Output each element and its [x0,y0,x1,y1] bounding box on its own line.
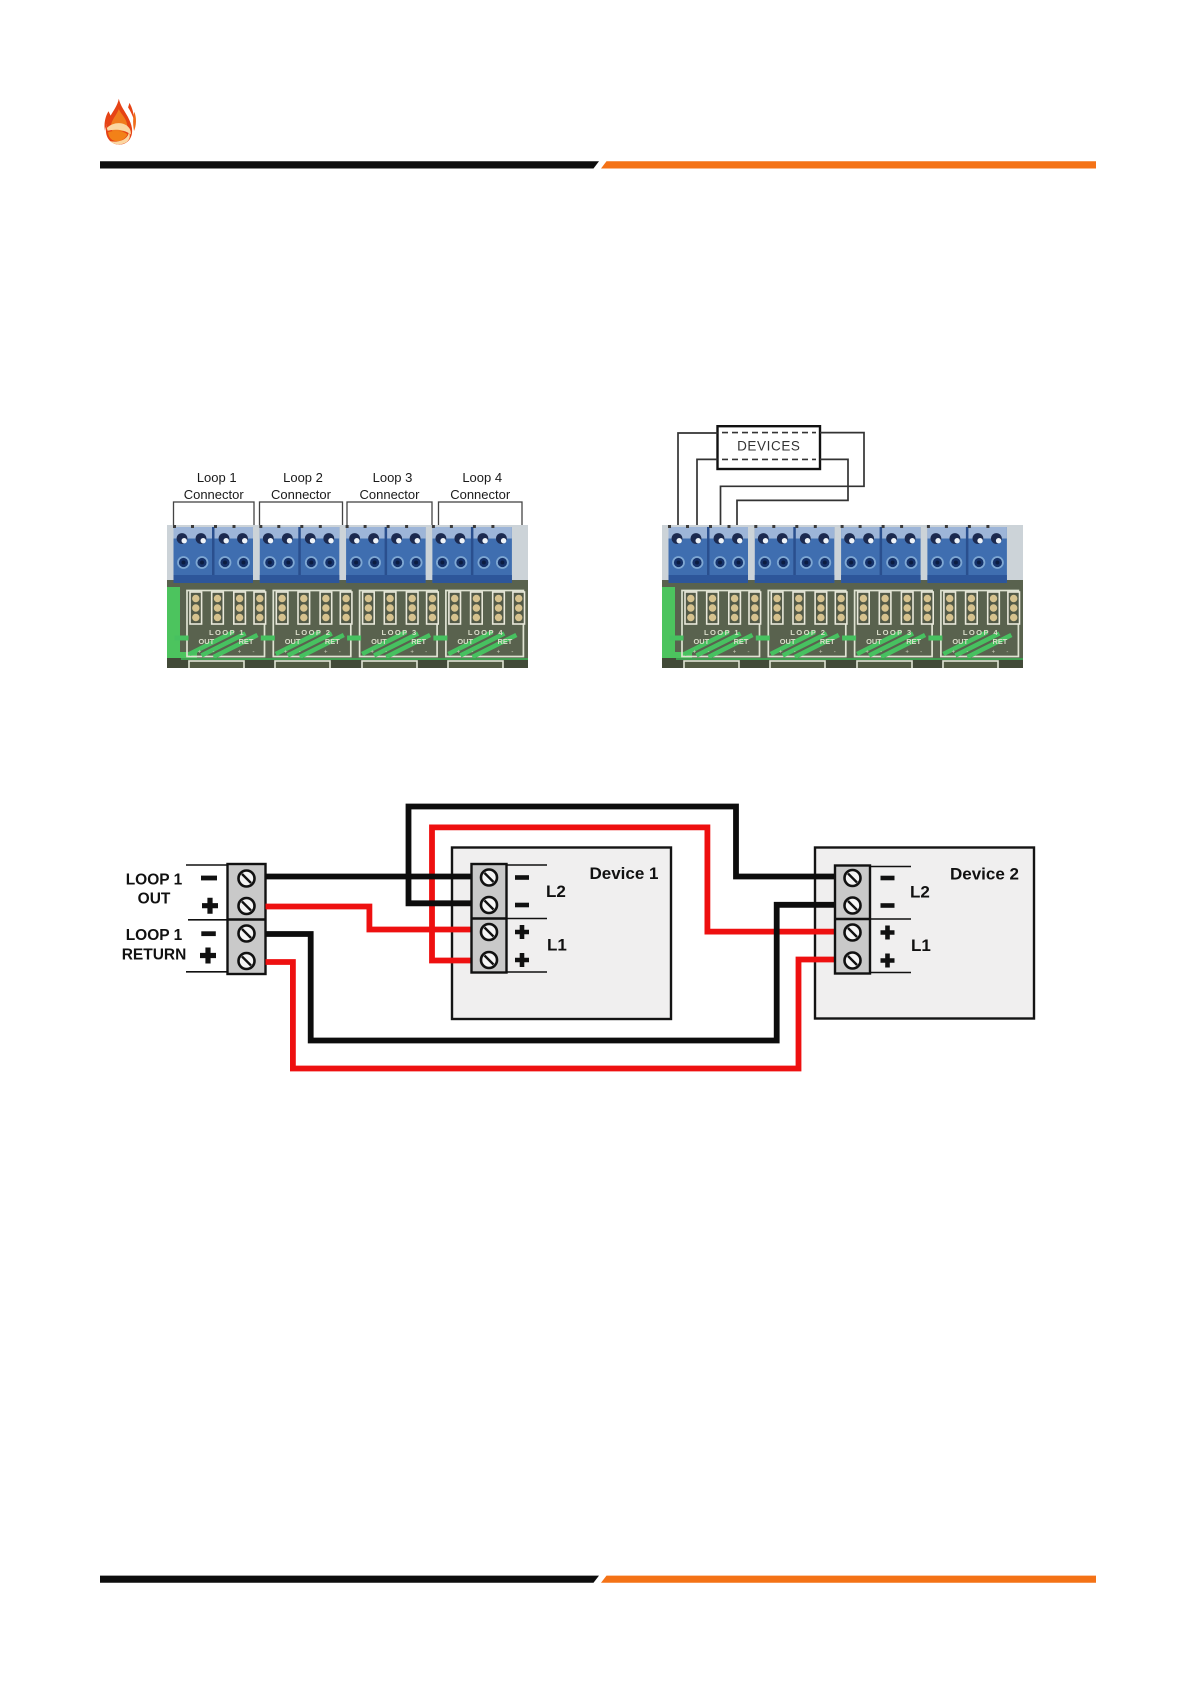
bracket box Loop 2 [260,502,343,526]
wire red: LOOP1 OUT + to device1 L1 [266,907,472,930]
label LOOP 1 OUT [126,872,183,908]
header rule orange segment [601,161,1096,168]
bracket box Loop 1 [174,502,255,526]
svg-text:RETURN: RETURN [122,946,187,963]
svg-text:L2: L2 [910,883,930,902]
device 2 terminal block [835,866,870,974]
svg-text:L1: L1 [911,936,931,955]
svg-text:LOOP 1: LOOP 1 [126,927,183,944]
wire DEVICES left-top to loop1 terminal 1 [678,433,718,525]
svg-text:Loop 3: Loop 3 [373,470,413,485]
svg-text:Connector: Connector [360,487,421,502]
polarity signs device 1 [515,875,529,967]
polarity signs at panel block [200,876,218,964]
svg-text:Loop 4: Loop 4 [462,470,502,485]
logo flame [105,99,136,145]
svg-text:LOOP 1: LOOP 1 [126,872,183,889]
svg-text:Connector: Connector [450,487,511,502]
label LOOP 1 RETURN [122,927,187,963]
wire DEVICES right-top to loop1 terminal 3 [721,433,865,525]
svg-text:Device 1: Device 1 [590,864,659,883]
photo: loop connectors (left) [167,525,528,671]
svg-text:Loop 2: Loop 2 [283,470,323,485]
label Loop 4 Connector [450,470,511,502]
screw terminals on device 2 [845,870,861,969]
wire black: device1 L2 - to device2 L2 (top black run) [409,807,836,904]
device 1 terminal block [472,864,507,973]
svg-text:L2: L2 [546,882,566,901]
wire black: LOOP1 OUT - to device1 L2 [266,874,472,880]
svg-text:Connector: Connector [184,487,245,502]
bracket lines right of device 2 block [870,867,911,973]
wire red: device1 L1 + to device2 L1 (top red run) [432,827,835,960]
polarity signs device 2 [881,876,895,968]
footer rule orange segment [601,1576,1096,1583]
wire red: LOOP1 RETURN + to device2 L1 (bottom red run) [266,960,836,1069]
label Loop 3 Connector [360,470,421,502]
footer rule black segment [100,1576,599,1583]
svg-text:L1: L1 [547,936,567,955]
label Loop 2 Connector [271,470,332,502]
device 1 box [452,848,671,1020]
svg-text:Device 2: Device 2 [950,865,1019,884]
wire DEVICES right-bottom to loop1 terminal 4 [737,459,848,525]
photo: loop connectors (right) [662,525,1023,671]
panel terminal block (LOOP 1) [228,864,266,974]
bracket box Loop 4 [439,502,523,526]
device 2 box [815,848,1034,1019]
wire black: LOOP1 RETURN - to device2 L2 (bottom black run) [266,905,836,1041]
screw terminals on panel block [239,871,255,970]
bracket lines right of device 1 block [507,865,548,972]
label Loop 1 Connector [184,470,245,502]
header rule black segment [100,161,599,168]
wire DEVICES left-bottom to loop1 terminal 2 [697,459,718,525]
svg-text:DEVICES: DEVICES [737,439,800,454]
DEVICES box [718,426,821,469]
screw terminals on device 1 [481,870,497,969]
bracket lines left of panel terminal block [186,865,228,972]
bracket box Loop 3 [347,502,432,526]
svg-text:OUT: OUT [138,891,171,908]
svg-text:Loop 1: Loop 1 [197,470,237,485]
svg-text:Connector: Connector [271,487,332,502]
